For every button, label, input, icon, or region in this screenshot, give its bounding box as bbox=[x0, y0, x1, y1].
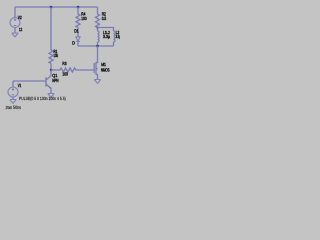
wire R2 bottom node bbox=[97, 28, 99, 32]
wire gate lead bbox=[76, 69, 94, 71]
wire L2 bottom bbox=[113, 42, 115, 46]
wire V2 bottom lead bbox=[14, 28, 16, 34]
svg-text:V1: V1 bbox=[18, 83, 22, 88]
wire V1 bottom lead bbox=[12, 97, 14, 100]
svg-text:0.5: 0.5 bbox=[102, 16, 107, 21]
svg-text:12: 12 bbox=[19, 27, 23, 32]
wire branch to L2 top bbox=[98, 28, 114, 32]
mosfet M1 source lead bbox=[96, 75, 98, 80]
svg-text:.tran 50ns: .tran 50ns bbox=[5, 105, 22, 111]
resistor R1 bbox=[49, 50, 53, 64]
svg-text:3.3µ: 3.3µ bbox=[116, 34, 120, 39]
wire top rail bbox=[15, 6, 98, 8]
wire L1 bottom bbox=[97, 42, 99, 46]
wire Q1 base bbox=[13, 80, 46, 82]
resistor R4 bbox=[76, 14, 80, 28]
svg-text:PULSE(0 5 0 100n 100n 4 5 5): PULSE(0 5 0 100n 100n 4 5 5) bbox=[19, 96, 66, 101]
inductor L2 bbox=[114, 31, 116, 42]
svg-text:D1: D1 bbox=[74, 28, 79, 33]
node junction top-mid bbox=[50, 6, 52, 8]
ground Q1 emitter bbox=[48, 94, 54, 98]
ground V2 bbox=[12, 33, 18, 37]
wire M1 drain lead bbox=[96, 46, 98, 63]
ground V1 bbox=[10, 100, 16, 104]
voltage source V2 bbox=[10, 18, 20, 28]
transistor Q1 bar bbox=[45, 77, 47, 86]
svg-text:100: 100 bbox=[62, 72, 68, 77]
wire V1 top lead bbox=[12, 81, 14, 87]
resistor R3 bbox=[60, 68, 76, 72]
mosfet M1 channel bar bbox=[95, 62, 97, 75]
resistor R2 bbox=[96, 14, 100, 28]
svg-text:NMOS: NMOS bbox=[101, 68, 110, 73]
wire bottom rail bbox=[78, 45, 114, 47]
transistor Q1 collector lead bbox=[46, 70, 51, 80]
wire R1 bottom bbox=[50, 64, 52, 71]
svg-text:NPN: NPN bbox=[52, 78, 58, 83]
voltage source V1 bbox=[8, 87, 18, 97]
wire D1 bottom bbox=[77, 42, 79, 47]
ground M1 source bbox=[94, 80, 100, 84]
wire mid column bbox=[50, 7, 52, 50]
wire R4 to D1 bbox=[77, 28, 79, 37]
node junction drain bbox=[96, 45, 98, 47]
node junction top-R4 bbox=[77, 6, 79, 8]
inductor L1 bbox=[98, 31, 100, 42]
svg-text:R3: R3 bbox=[62, 61, 66, 66]
svg-text:10k: 10k bbox=[54, 53, 59, 58]
svg-text:3.3µ: 3.3µ bbox=[103, 34, 110, 39]
wire R2 top lead bbox=[97, 7, 99, 14]
node junction R2 bottom bbox=[97, 27, 99, 29]
wire R4 top lead bbox=[77, 7, 79, 14]
svg-text:V2: V2 bbox=[18, 15, 22, 20]
svg-text:100: 100 bbox=[81, 16, 87, 21]
mosfet M1 body arrow bbox=[96, 68, 98, 70]
Q1 emitter arrow bbox=[49, 87, 51, 89]
transistor Q1 emitter bbox=[46, 84, 51, 93]
diode D1 bbox=[76, 37, 80, 42]
wire V2 top lead bbox=[14, 7, 16, 18]
node junction mid bbox=[50, 69, 52, 71]
wire R3 left lead bbox=[51, 69, 60, 71]
mosfet M1 gate bar bbox=[93, 63, 95, 73]
svg-text:M1: M1 bbox=[101, 62, 106, 67]
